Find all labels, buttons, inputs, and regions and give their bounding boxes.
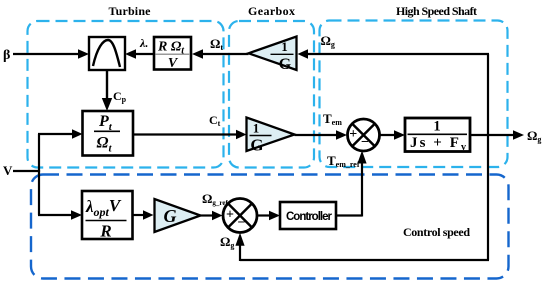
svg-text:1: 1 (281, 39, 288, 54)
svg-text:+: + (226, 208, 234, 223)
sum junction 2 (speed) (223, 199, 257, 233)
svg-text:Control speed: Control speed (403, 225, 470, 239)
wire Omega_g output (470, 130, 524, 140)
gain block G (right-pointing triangle) (155, 199, 201, 232)
svg-text:+: + (349, 127, 357, 142)
svg-text:G: G (250, 136, 263, 155)
svg-text:High Speed Shaft: High Speed Shaft (396, 4, 477, 18)
dashed box Turbine (28, 21, 224, 168)
wire sum junction 1 to Js+Fv block (380, 130, 406, 140)
block Pt/Omega_t (83, 111, 134, 156)
svg-text:Gearbox: Gearbox (248, 4, 295, 18)
block Cp curve (89, 37, 125, 70)
block Controller (280, 202, 336, 229)
wire V branch to lambda_opt block (38, 210, 82, 220)
gain block 1/G (top, left-pointing triangle) (249, 37, 297, 74)
wire feedback vertical from output node (487, 54, 489, 260)
svg-text:1: 1 (253, 120, 260, 135)
block 1/(Js+Fv) (405, 118, 470, 153)
svg-text:λ.: λ. (139, 36, 148, 50)
svg-text:G: G (164, 206, 177, 226)
wire Omega_g feedback to top 1/G triangle (298, 49, 490, 59)
svg-text:V: V (3, 163, 13, 178)
wire sum junction 2 to Controller (257, 211, 280, 221)
dashed box Gearbox (229, 21, 314, 168)
wire beta to Cp-curve block (13, 49, 89, 59)
wire Omega_g_ref: G triangle to sum junction 2 (201, 211, 223, 221)
svg-text:β: β (3, 48, 10, 63)
wire Cp: curve block down to Pt/Omega_t block (102, 70, 112, 111)
dashed box High Speed Shaft (320, 21, 508, 168)
svg-text:1: 1 (433, 119, 440, 135)
svg-text:Controller: Controller (286, 211, 333, 223)
svg-text:Turbine: Turbine (109, 4, 152, 18)
dashed box Control speed (31, 175, 509, 279)
wire Ct: Pt/Omega_t to gearbox 1/G triangle (134, 130, 247, 140)
wire lambda: R-Omega-t/V block to Cp-curve block (125, 49, 154, 59)
wire Tem_ref: Controller to sum junction 1 (336, 151, 367, 217)
svg-text:−: − (238, 215, 246, 230)
svg-text:R Ωt: R Ωt (157, 40, 185, 57)
wire Tem: gearbox triangle to sum junction 1 (295, 130, 348, 140)
svg-text:R: R (99, 222, 111, 241)
sum junction 1 (torque) (348, 119, 380, 151)
svg-text:G: G (279, 56, 292, 73)
wire V branch to Pt/Omega_t block (38, 129, 83, 139)
gain block 1/G (gearbox, right-pointing triangle) (247, 118, 295, 155)
svg-text:−: − (361, 135, 369, 150)
wire Omega_t: gearbox 1/G triangle output to R-Omega-t/V block (192, 49, 249, 59)
wire V input to junction (13, 134, 40, 215)
wire lambda_opt block to G triangle (133, 210, 154, 220)
wire feedback bottom to sum junction 2 (235, 233, 489, 261)
block R Omega_t / V (154, 37, 191, 71)
block lambda_opt V / R (82, 191, 133, 241)
